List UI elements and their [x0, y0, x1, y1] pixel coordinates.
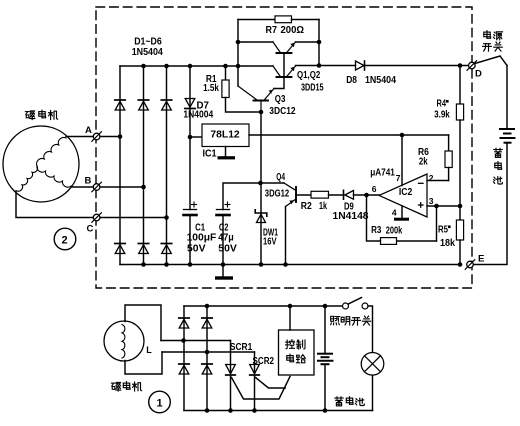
svg-text:Q3: Q3: [275, 94, 286, 105]
node dot phase A tap: [118, 134, 123, 139]
junction dots lower - rail: [205, 408, 210, 413]
node dot pin7 rail: [400, 133, 405, 138]
node dot Q1 collector: [236, 40, 241, 45]
node dot phase B tap: [141, 185, 146, 190]
svg-text:E: E: [478, 254, 484, 265]
terminal E connector: [467, 261, 474, 268]
wire Q4 collector: [261, 182, 285, 184]
dashed enclosure of regulator circuit 2: [96, 7, 472, 288]
diode D5: [138, 243, 148, 245]
battery 蓄电池 (circuit 2): [500, 128, 514, 130]
ground symbol under IC2: [394, 218, 409, 221]
wire - rail (circuit 2 bottom): [120, 264, 460, 266]
svg-text:1N4004: 1N4004: [183, 110, 213, 121]
wire D7 column upper: [189, 66, 191, 210]
resistor R4 3.9k: [459, 66, 461, 105]
svg-text:7: 7: [396, 173, 401, 183]
svg-text:R3: R3: [371, 225, 382, 236]
svg-text:16V: 16V: [263, 237, 277, 248]
wire D9 to op-amp output: [354, 194, 380, 196]
terminal A connector: [93, 133, 100, 140]
wire Q1 base to Q2 base: [283, 53, 285, 77]
wire C2 lead lower: [222, 215, 224, 265]
svg-text:3DC12: 3DC12: [269, 106, 296, 117]
wire magneto1 bottom terminal: [125, 352, 162, 374]
label 电路: [287, 354, 294, 362]
svg-text:Q4: Q4: [276, 172, 285, 183]
svg-text:L: L: [146, 345, 152, 355]
svg-text:μA741: μA741: [370, 167, 395, 178]
wire D8 to switch terminal D: [365, 65, 469, 67]
thyristor SCR2: [254, 352, 256, 411]
svg-text:D8: D8: [346, 75, 357, 86]
wire lower + rail: [184, 305, 342, 307]
wire Q1 emitter to node: [296, 41, 320, 43]
node dot phase C tap: [164, 215, 169, 220]
battery of circuit 1: [324, 306, 326, 353]
wire lower bridge column 2: [206, 306, 208, 411]
terminal B connector: [93, 184, 100, 191]
wire R7 loop right vertical: [318, 20, 320, 66]
label 蓄电池 lower: [335, 397, 343, 406]
svg-text:3: 3: [429, 196, 434, 206]
wire R3 left lead: [367, 195, 381, 241]
wire bridge column 1: [119, 66, 121, 265]
figure number 1 in circle: [149, 391, 171, 413]
IC2 pin 4 wire: [401, 206, 403, 218]
wire lower bridge column 1: [183, 306, 185, 411]
transistor Q2 3DD15: [277, 76, 292, 78]
resistor R1 1.5k: [225, 66, 227, 80]
wire magneto to terminal C: [16, 191, 167, 218]
wire control box to + rail: [289, 306, 291, 330]
winding L of magneto 1: [122, 325, 125, 359]
wire C2 top lead: [223, 183, 261, 210]
wire + rail from bridge to Q2 collector: [120, 65, 273, 67]
transistor Q1 3DD15: [277, 52, 292, 54]
svg-text:1.5k: 1.5k: [203, 83, 219, 94]
svg-text:200Ω: 200Ω: [281, 25, 305, 36]
svg-text:D: D: [475, 69, 482, 80]
svg-text:Q1,Q2: Q1,Q2: [297, 70, 321, 81]
power switch blade: [475, 56, 507, 66]
diode D7 1N4004: [185, 99, 195, 108]
control circuit box 控制电路: [279, 330, 315, 375]
svg-text:4: 4: [392, 208, 397, 218]
svg-text:2: 2: [62, 235, 68, 247]
node dot Q3 base node: [259, 110, 264, 115]
svg-text:3DG12: 3DG12: [265, 189, 290, 200]
node dot Q2 emitter: [317, 63, 322, 68]
wire bridge column 2: [143, 66, 145, 265]
wire R7 loop top-right: [292, 19, 320, 21]
ground symbol below - rail: [215, 276, 233, 279]
resistor R2 1k: [311, 191, 329, 198]
resistor R5 18k: [459, 206, 461, 220]
node dot pin6: [364, 193, 369, 198]
ground symbol under IC1: [218, 156, 236, 159]
label 开关: [483, 44, 492, 51]
lower diode column1 top: [179, 317, 189, 319]
node dot pin3/R3: [434, 204, 439, 209]
svg-text:3DD15: 3DD15: [301, 82, 324, 93]
node dot D7/C1/IC1 input: [188, 135, 193, 140]
wire IC1 output 12V line: [249, 134, 449, 136]
wire R3 right lead: [397, 240, 437, 242]
diode D1: [115, 99, 125, 101]
lower diode column1 bottom: [179, 363, 189, 365]
svg-text:1N5404: 1N5404: [132, 47, 164, 58]
label 蓄电池 vertical: [494, 148, 502, 157]
svg-text:R4: R4: [437, 99, 447, 110]
svg-text:2: 2: [429, 173, 434, 183]
wire D7 node to IC1 input: [190, 136, 202, 138]
svg-text:1k: 1k: [319, 201, 327, 212]
label 照明开关: [331, 316, 340, 324]
svg-text:47μ: 47μ: [218, 232, 234, 243]
node dot pin3/R4R5: [458, 204, 463, 209]
IC1 ground pin: [225, 147, 227, 157]
IC2 pin 3 wire: [427, 205, 460, 207]
wire R2 to D9: [329, 194, 344, 196]
diode D8 1N5404: [356, 61, 365, 70]
diode D3: [161, 99, 171, 101]
magneto (3-phase alternator) of circuit 2: [3, 126, 79, 202]
label 电源: [484, 31, 491, 39]
label 控制: [286, 340, 295, 349]
minus sign at pin2: [419, 182, 424, 184]
node dot Q1 emitter: [317, 40, 322, 45]
svg-text:100μF: 100μF: [187, 232, 217, 243]
resistor R7 200 ohm: [275, 16, 292, 23]
plus sign at pin3: [419, 204, 424, 206]
wire AC2 to bridge and SCR2: [162, 351, 255, 353]
terminal C connector: [93, 214, 100, 221]
wire Q3 base / DW1 column: [260, 112, 262, 265]
wire R3 right vertical: [436, 206, 438, 241]
diode D9 1N4148: [343, 190, 345, 199]
wire Q2 emitter node to D8: [319, 65, 356, 67]
wire R7 loop left vertical: [237, 20, 239, 87]
wire R7 loop top-left: [238, 19, 275, 21]
wire magneto to terminal B: [71, 186, 144, 188]
junction dots lower + rail: [205, 304, 210, 309]
svg-text:2k: 2k: [419, 157, 428, 168]
svg-text:1N5404: 1N5404: [365, 75, 396, 86]
transistor Q3 3DC12: [254, 100, 269, 102]
svg-text:IC2: IC2: [399, 187, 413, 198]
op-amp IC2 uA741 triangle: [379, 174, 427, 217]
wire magneto1 top terminal: [125, 305, 161, 341]
svg-text:R2: R2: [301, 201, 312, 212]
wire Q2 emitter to node: [296, 65, 320, 67]
svg-text:SCR1: SCR1: [230, 342, 253, 353]
wire SCR1 gate: [232, 377, 291, 400]
diode D4: [115, 243, 125, 245]
magneto of circuit 1: [104, 321, 144, 361]
junction dots on + rail: [141, 64, 146, 69]
svg-text:SCR2: SCR2: [253, 356, 275, 367]
resistor R3 200k: [381, 238, 397, 245]
svg-text:A: A: [85, 125, 92, 136]
svg-text:D1~D6: D1~D6: [134, 37, 162, 48]
svg-text:6: 6: [372, 184, 377, 194]
svg-text:1N4148: 1N4148: [333, 211, 369, 222]
svg-text:50V: 50V: [218, 244, 237, 255]
wire Q2 base down to Q3 emitter: [274, 77, 284, 89]
svg-text:R7: R7: [266, 25, 278, 36]
svg-text:C: C: [87, 224, 94, 235]
svg-text:50V: 50V: [187, 244, 206, 255]
IC2 pin 2 wire: [427, 180, 449, 182]
wire SCR2 gate: [256, 378, 286, 389]
svg-text:78L12: 78L12: [210, 128, 239, 140]
label 磁电机 lower: [111, 382, 120, 391]
diode D6: [161, 243, 171, 245]
svg-text:B: B: [85, 176, 92, 187]
svg-text:3.9k: 3.9k: [434, 110, 450, 121]
IC2 pin 7 wire: [401, 135, 403, 186]
ground stub below - rail: [222, 265, 224, 277]
diode D2: [138, 99, 148, 101]
transistor Q4 3DG12: [295, 187, 297, 202]
svg-text:R5: R5: [438, 224, 448, 235]
junction dots on - rail: [141, 262, 146, 267]
wire magneto to terminal A: [66, 136, 120, 138]
zener diode DW1 16V: [255, 210, 267, 216]
node dot Q4 collector / C2: [258, 181, 263, 186]
lower diode column2 top: [202, 317, 212, 319]
lower diode column2 bottom: [202, 363, 212, 365]
capacitor C1 100uF 50V: [184, 209, 197, 211]
wire Q1 collector: [238, 41, 273, 43]
lighting switch 照明开关: [343, 303, 349, 309]
svg-text:18k: 18k: [440, 238, 455, 249]
wire switch to battery: [506, 66, 508, 129]
wire C1 lead lower: [189, 215, 191, 265]
node dot AC1 column1: [181, 338, 186, 343]
IC1 78L12 box: [202, 124, 249, 147]
wire bridge column 3: [166, 66, 168, 265]
node dot R4 top: [458, 63, 463, 68]
wire Q4 emitter down to - rail: [285, 207, 287, 265]
svg-text:IC1: IC1: [203, 148, 217, 159]
wire AC1 to bridge and SCR1: [161, 340, 231, 342]
resistor R6 2k: [448, 135, 450, 151]
figure number 2 in circle: [54, 228, 76, 250]
lamp symbol: [361, 353, 384, 376]
terminal D connector: [469, 62, 476, 69]
label 磁电机 (magneto) upper: [25, 111, 34, 120]
capacitor C2 47uF 50V: [217, 209, 230, 211]
wire switch to lamp: [368, 306, 373, 353]
svg-text:1: 1: [157, 398, 163, 410]
thyristor SCR1: [230, 341, 232, 411]
wire lower - rail: [184, 410, 373, 412]
node dot AC2 column2: [205, 350, 210, 355]
wire Q4 base to R2: [296, 194, 311, 196]
wire battery negative to terminal E: [474, 143, 508, 265]
wire lamp to - rail: [372, 375, 374, 410]
svg-text:200k: 200k: [386, 226, 403, 237]
